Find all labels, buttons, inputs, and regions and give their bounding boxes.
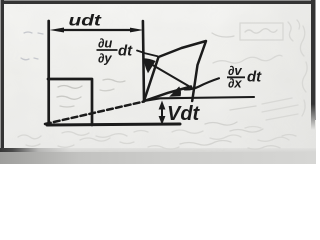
svg-text:dt: dt bbox=[118, 43, 133, 60]
svg-text:∂y: ∂y bbox=[98, 51, 112, 66]
svg-text:dt: dt bbox=[247, 69, 262, 86]
svg-text:udt: udt bbox=[69, 11, 102, 29]
svg-text:Vdt: Vdt bbox=[167, 103, 201, 125]
svg-text:∂u: ∂u bbox=[98, 36, 112, 51]
